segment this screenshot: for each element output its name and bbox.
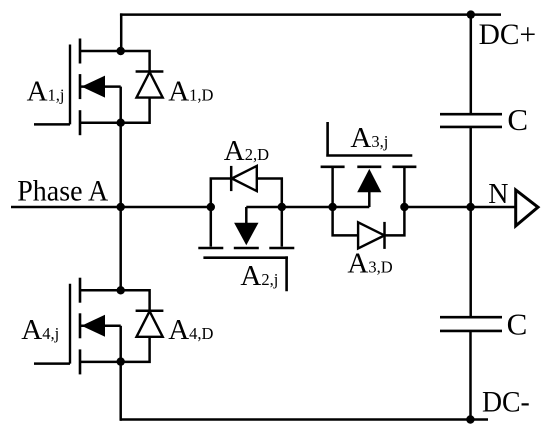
svg-text:A3,D: A3,D	[347, 248, 392, 280]
svg-text:C: C	[507, 102, 528, 137]
wire: DC+ top rail	[120, 13, 501, 16]
svg-text:A2,D: A2,D	[224, 135, 269, 167]
stub from right node	[246, 206, 281, 209]
wire: left node up to diode	[211, 179, 231, 208]
svg-text:Phase A: Phase A	[17, 174, 108, 207]
left lead	[331, 167, 334, 207]
wire: capacitor C1 down to node N	[469, 127, 472, 207]
wire: node N to output triangle	[471, 206, 516, 209]
middle lead with body arrow	[80, 85, 121, 88]
gate bar	[326, 122, 412, 156]
diode A2,D	[211, 166, 282, 207]
svg-text:A4,j: A4,j	[21, 314, 59, 346]
wire: node N down to capacitor C2	[469, 207, 472, 317]
wire: A4 source down to DC- rail	[119, 362, 122, 421]
channel segments	[198, 247, 294, 250]
node: bottom rail junction	[466, 415, 474, 423]
gate bar	[69, 45, 71, 125]
cathode bar	[136, 70, 164, 73]
cathode bar	[136, 309, 164, 312]
middle lead	[245, 207, 248, 224]
node: A4 source junction	[117, 357, 125, 365]
wire: drain to diode cathode	[121, 51, 150, 72]
wire: drain to diode cathode	[121, 290, 150, 311]
svg-text:A3,j: A3,j	[350, 122, 388, 154]
right lead	[281, 207, 284, 247]
node: A1 source junction	[117, 119, 125, 127]
svg-text:N: N	[488, 179, 508, 210]
middle lead	[368, 192, 371, 207]
body arrow (up)	[357, 169, 381, 192]
svg-text:A2,j: A2,j	[240, 260, 278, 292]
wire: A2 right node to A3 left node	[282, 206, 333, 209]
gate lead	[34, 362, 70, 365]
diode A3,D	[333, 207, 405, 249]
node: A3 right junction	[400, 203, 408, 211]
body arrow (down)	[234, 223, 258, 246]
left lead	[210, 207, 213, 247]
channel segments	[79, 278, 82, 375]
channel segments	[321, 166, 417, 169]
node: phase junction	[117, 203, 125, 211]
cathode bar	[383, 222, 386, 249]
source lead	[80, 361, 121, 364]
wire: A3 right node to N	[404, 206, 470, 209]
transistor A4,j	[34, 278, 121, 375]
cathode bar	[230, 166, 233, 191]
drain lead	[80, 289, 121, 292]
node N junction dot	[466, 203, 474, 211]
wire: A1 source down to A4 drain	[119, 123, 122, 291]
middle lead with body arrow	[80, 325, 121, 328]
output arrow at N	[516, 190, 538, 226]
node: top rail junction	[467, 10, 475, 18]
diode A4,D	[121, 290, 164, 362]
transistor A2,j	[198, 207, 294, 291]
transistor A3,j	[321, 122, 417, 207]
svg-text:A1,D: A1,D	[168, 76, 213, 108]
diode triangle	[232, 166, 257, 191]
wire: Phase A input	[11, 206, 211, 209]
wire: diode anode to right node	[257, 179, 282, 208]
wire: diode anode to source	[121, 337, 150, 362]
capacitor C1	[440, 114, 502, 127]
diode A1,D	[121, 51, 164, 123]
wire: diode cathode to right node	[385, 207, 405, 235]
diode triangle	[137, 311, 163, 337]
gate bar	[69, 284, 71, 364]
svg-text:DC+: DC+	[479, 18, 536, 51]
svg-text:A1,j: A1,j	[27, 76, 65, 108]
node: A2 left junction	[207, 203, 215, 211]
diode triangle	[137, 72, 163, 98]
right lead	[403, 167, 406, 207]
svg-text:A4,D: A4,D	[168, 314, 213, 346]
capacitor C2	[440, 317, 502, 331]
wire: left node down to diode anode	[333, 207, 359, 235]
node: A4 drain junction	[117, 286, 125, 294]
source lead	[80, 121, 121, 124]
drain lead	[80, 50, 121, 53]
wire: A1 drain up to top rail	[120, 13, 123, 51]
gate bar	[203, 256, 288, 291]
transistor A1,j	[34, 39, 121, 136]
svg-text:DC-: DC-	[482, 385, 530, 418]
node: A1 drain junction	[117, 47, 125, 55]
channel segments	[79, 39, 82, 136]
wire: capacitor C2 down to DC- rail	[469, 331, 472, 420]
node: A2 right junction	[278, 203, 286, 211]
wire: diode anode to source	[121, 98, 150, 123]
node: A3 left junction	[328, 203, 336, 211]
wire: top rail down to capacitor C1	[470, 15, 473, 115]
wire: DC- bottom rail	[120, 418, 488, 421]
diode triangle	[358, 222, 384, 248]
gate lead	[34, 123, 70, 126]
stub from left node	[333, 206, 370, 209]
svg-text:C: C	[507, 307, 528, 342]
